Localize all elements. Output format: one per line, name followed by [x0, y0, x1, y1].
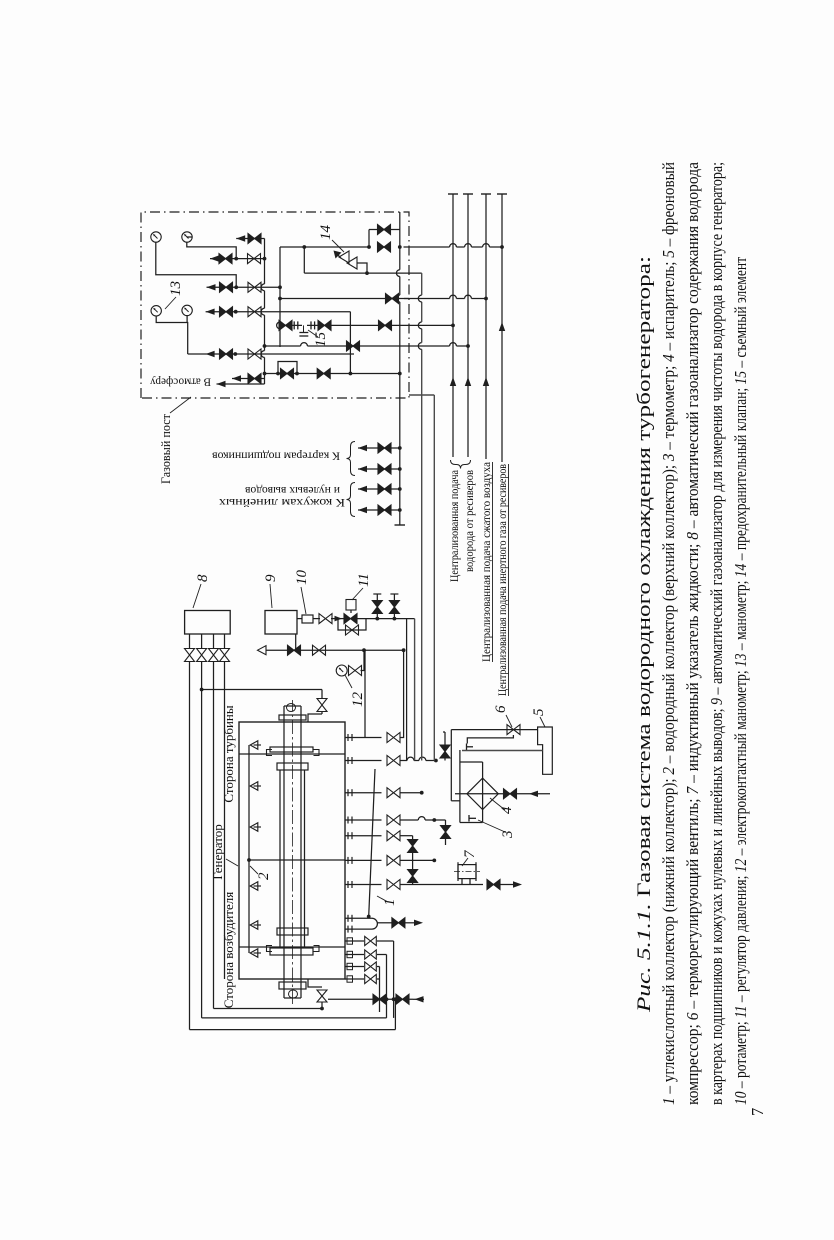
leader 7 [462, 858, 468, 866]
pipe: connector x=894 inside box [265, 345, 301, 347]
svg-text:14: 14 [318, 225, 334, 241]
shaft curl left [289, 990, 298, 998]
valve row4 open [248, 349, 261, 359]
bearing vent stub 3 [358, 468, 400, 470]
pipe: connector x=941.5 inside box [280, 298, 409, 300]
svg-text:2: 2 [256, 872, 272, 880]
left shaft seal drain [308, 979, 322, 987]
stub r7 tail [400, 884, 483, 886]
leader 2 [250, 866, 258, 874]
pipe: connector x=966.9 [304, 272, 421, 274]
manometer 13 a [151, 232, 161, 242]
valve under 12 [349, 666, 362, 676]
row 3 elbow [349, 312, 351, 374]
legs of 7 [461, 879, 463, 885]
valve 15b [318, 320, 331, 330]
link 993-966.9 [303, 247, 305, 273]
union coupling a [293, 321, 295, 329]
supply manifold line 2 (hydrogen) [467, 194, 469, 457]
exciter stub valve [365, 962, 377, 971]
union coupling b [310, 321, 312, 329]
exciter wall notch upper [267, 946, 273, 952]
row4 stub end [353, 353, 355, 355]
flow arrow to regulator [335, 616, 343, 622]
manometer 13 c [151, 306, 161, 316]
svg-text:7: 7 [462, 849, 478, 858]
leader for 14 [332, 240, 344, 252]
upper collector 2 pipe [248, 745, 250, 953]
svg-text:1 – углекислотный коллектор (н: 1 – углекислотный коллектор (нижний колл… [659, 162, 678, 1105]
pipe: item15 to manifold1 [399, 324, 401, 326]
pipe: row2 ext [266, 286, 280, 288]
collector tap triangle [250, 782, 258, 791]
centerline 7 [454, 871, 480, 873]
bypass loop around purge valve [278, 362, 297, 374]
bypass of 11 [338, 619, 366, 630]
svg-text:Газовый пост: Газовый пост [159, 413, 173, 484]
pipe: H2 connector to manifold line 4 [404, 246, 450, 248]
pipe: cross link y=280 [279, 329, 281, 347]
exciter stubs (4) [345, 978, 364, 980]
svg-text:компрессор; 6 – терморегулирую: компрессор; 6 – терморегулирующий вентил… [683, 162, 702, 1105]
valve on 412 line b [408, 870, 418, 883]
valve under 10 [319, 614, 332, 624]
evaporator diamond 4 [467, 778, 498, 809]
exciter stub valve [365, 936, 377, 945]
flow arrow on line 1 [450, 377, 456, 386]
row 0 pipe [236, 238, 264, 240]
stub r1 tail [400, 650, 404, 737]
right shaft seal drain [308, 714, 322, 722]
flow arrow on line 2 [465, 377, 471, 386]
vent valve open [313, 645, 326, 655]
pipe from analyzer 8 #4 [224, 634, 226, 649]
svg-text:В атмосферу: В атмосферу [150, 376, 211, 390]
svg-text:3: 3 [500, 831, 516, 840]
dryer left pipe [460, 822, 483, 824]
pipe 8-4 long [224, 662, 226, 980]
valve analyzer 1 [185, 649, 195, 662]
thermometer T2 [468, 815, 470, 822]
pipe wrap left 1 [190, 1029, 396, 1031]
gauge C/D links [156, 316, 188, 354]
pipe: vent collector to atmosphere [264, 357, 266, 384]
leader 13 [165, 297, 176, 309]
collector tap triangle [250, 949, 258, 958]
thermo valve 6 pipe [451, 729, 537, 731]
bearing vent stub 2 [358, 488, 400, 490]
svg-text:в картерах подшипников и кожух: в картерах подшипников и кожухах нулевых… [707, 162, 726, 1105]
purge valve b [317, 369, 330, 379]
valve row3 filled [220, 307, 233, 317]
leader 12 [345, 675, 352, 688]
branch b cap [390, 593, 398, 595]
liquid indicator 7 body [458, 865, 476, 879]
pipe from analyzer 8 #3 [213, 634, 215, 649]
pipe: connector to manifold line 3 [404, 298, 450, 300]
pipe from analyzer 8 #2 [201, 634, 203, 649]
gauge A link [156, 242, 236, 287]
leader 10 [301, 587, 306, 614]
dryer upper pipe [459, 750, 461, 823]
svg-text:8: 8 [195, 574, 211, 582]
stub r5 tail [400, 835, 413, 837]
gas analyzer 9 box [265, 611, 297, 635]
pipe T1 to compressor [462, 750, 543, 752]
machine stub r6 [345, 859, 382, 861]
bearing bar left inner [277, 928, 308, 935]
drain column exciter end [328, 998, 413, 1000]
drain flow arrow [415, 996, 424, 1002]
supply manifold line 1 (hydrogen) [452, 194, 454, 457]
manometer 13 d [182, 305, 192, 315]
removable element plates [303, 325, 305, 332]
svg-text:Генератор: Генератор [210, 824, 225, 879]
generator casing [239, 722, 345, 979]
valve row0 [248, 234, 261, 244]
pipe y=412.6 with valves [412, 836, 414, 885]
leader line for gas post label [170, 397, 191, 413]
supply manifold line 4 (inert gas) [501, 194, 503, 462]
deep purge pipe [265, 373, 400, 375]
svg-text:5: 5 [531, 708, 547, 716]
collector tap triangle [250, 741, 258, 750]
link 12 [361, 650, 365, 671]
valve row2 open [248, 282, 261, 292]
branch valve a [372, 601, 382, 614]
valve 15a [279, 320, 292, 330]
turbine wall notch lower [314, 750, 320, 756]
svg-text:и нулевых выводов: и нулевых выводов [245, 484, 340, 498]
machine stub r4 [345, 819, 382, 821]
exciter collector B [386, 955, 388, 1000]
pipe from analyzer 8 #1 [189, 634, 191, 649]
flow arrow on line 3 [483, 377, 489, 386]
leader 4 [490, 798, 505, 810]
exciter collector C [393, 941, 395, 1018]
link 9 to vent line [295, 634, 297, 650]
bypass rect line [364, 650, 366, 737]
valve on stub 3 [378, 464, 391, 474]
bearing vent stub 1 [358, 509, 400, 511]
routing pipe B (grey) [433, 395, 435, 761]
svg-text:6: 6 [493, 705, 509, 713]
stub r6 tail [400, 859, 434, 861]
svg-text:Централизованная подача сжатог: Централизованная подача сжатого воздуха [481, 462, 493, 662]
pipe dryer a [444, 732, 446, 761]
valve on bypass [378, 225, 391, 235]
stub r4 tail [400, 819, 418, 821]
pipe: atmosphere vent [217, 383, 265, 385]
valve analyzer 2 [197, 649, 207, 662]
supply manifold line 3 (compressed air) [485, 194, 487, 459]
svg-text:9: 9 [263, 574, 279, 582]
end tick of header [395, 524, 406, 526]
drain arrow below 7 [513, 881, 522, 887]
machine stub r5 [345, 835, 382, 837]
bearing vent stub 4 [358, 447, 400, 449]
valve analyzer 4 [220, 649, 230, 662]
manometer 13 b [182, 232, 192, 242]
rotameter 10 [302, 615, 313, 623]
pipe 10-valve [313, 618, 320, 620]
lower collector 1 (CO2) [369, 769, 375, 917]
stub valve r4 [387, 815, 400, 825]
pipe 8-3 long [213, 662, 215, 1009]
exciter wall notch lower [314, 946, 320, 952]
svg-text:7: 7 [748, 1108, 767, 1116]
valve row2 filled [220, 282, 233, 292]
exciter stub valve [365, 974, 377, 983]
leader 11 [352, 588, 363, 600]
leader 15 [308, 330, 318, 337]
rotor body [279, 770, 281, 948]
svg-text:15: 15 [313, 332, 329, 348]
shaft end left [284, 997, 301, 999]
brace stubs right pair [347, 442, 356, 476]
chain main pipe [297, 621, 302, 623]
drain valve b [396, 994, 409, 1004]
stub valve r7 [387, 880, 400, 890]
branch y=394 [393, 594, 395, 619]
thermometer T1 [466, 744, 468, 751]
shaft lower line [300, 706, 302, 998]
brace stubs left pair [347, 483, 356, 517]
exciter stub valve [365, 950, 377, 959]
purge valve a [281, 369, 294, 379]
bypass loop with valve [368, 230, 370, 248]
branch y=377 [376, 594, 378, 619]
leader 6 [506, 715, 512, 727]
shaft centerline [292, 700, 294, 1004]
pipe wrap left 3 [214, 1008, 323, 1010]
pilot box 11 [346, 600, 356, 611]
valve right end [317, 699, 327, 712]
routing pipe C [406, 619, 408, 761]
row 2 pipe [207, 286, 281, 288]
stub r2 tail [400, 760, 407, 762]
valve row4 filled [220, 349, 233, 359]
svg-text:Централизованная подача: Централизованная подача [449, 470, 461, 582]
bypass valve 11 [346, 625, 359, 635]
valve air feed [504, 789, 517, 799]
valve left end [317, 990, 327, 1002]
row 3 pipe [206, 311, 351, 313]
trap drain valve [392, 918, 405, 928]
valve below 7 [487, 880, 500, 890]
capillary 6-T1 [467, 735, 513, 744]
bearing bar left outer [270, 948, 313, 955]
leader generator [226, 859, 238, 866]
svg-text:12: 12 [350, 692, 366, 708]
machine stub r2 [345, 760, 382, 762]
removable element 15 pipe [280, 324, 302, 326]
pipe 8-2 long [201, 662, 203, 1018]
svg-text:Сторона турбины: Сторона турбины [221, 705, 236, 803]
stub r3 tail [400, 792, 422, 794]
stub valve r6 [387, 855, 400, 865]
chain pipe down [357, 618, 415, 620]
funnel triangle [258, 646, 267, 655]
branch valve b [389, 601, 399, 614]
valve on 412 line a [408, 840, 418, 853]
pipe valve-11 [331, 618, 344, 620]
shaft collar right [279, 715, 306, 720]
valve row3 open [248, 307, 261, 317]
collector tap triangle [250, 882, 258, 891]
machine stub r7 [345, 884, 382, 886]
gas post dash-dot border [141, 212, 409, 398]
stub valve r3 [387, 788, 400, 798]
svg-text:Сторона возбудителя: Сторона возбудителя [221, 892, 236, 1008]
collector tap triangle [250, 921, 258, 930]
branch a cap [373, 593, 381, 595]
pipe: connector to manifold line 2 [409, 345, 450, 347]
vent valve filled [288, 645, 301, 655]
svg-text:водорода от ресиверов: водорода от ресиверов [464, 469, 476, 572]
pipe 8-1 long [189, 662, 191, 1030]
freon compressor 5 box [538, 727, 553, 774]
pipe wrap left 2 [202, 1017, 387, 1019]
brace for hydrogen lines [451, 460, 471, 469]
valve on stub 4 [378, 443, 391, 453]
valve row1 open [248, 254, 261, 264]
U-trap bottom [372, 918, 377, 929]
leader 5 [540, 717, 545, 727]
valve dryer a [440, 745, 450, 758]
svg-text:10: 10 [294, 570, 310, 586]
bearing bar right inner [277, 763, 308, 770]
row 5 vent pipe [232, 378, 265, 380]
machine stub r1 [345, 737, 382, 739]
routing pipe A (grey) [421, 349, 423, 760]
pressure regulator 11 [344, 614, 357, 624]
valve on line1 connector [379, 320, 392, 330]
valve dryer b [441, 826, 451, 839]
leader 1 [377, 896, 388, 902]
gauge A-row3 link [235, 287, 237, 311]
machine stub r3 [345, 792, 382, 794]
pipe: bearing/casing feed header [399, 302, 401, 525]
pipe: connector to manifold line 1 [451, 324, 455, 328]
trap drain arrow [414, 920, 423, 926]
gauge B link [187, 236, 192, 238]
collector tap triangle [250, 823, 258, 832]
bearing bar right outer [270, 747, 313, 752]
svg-text:К картерам подшипников: К картерам подшипников [212, 450, 340, 464]
svg-text:10 – ротаметр; 11 – регулятор: 10 – ротаметр; 11 – регулятор давления; … [731, 257, 750, 1105]
electrocontact manometer 12 [336, 665, 347, 676]
valve analyzer 3 [209, 649, 219, 662]
stub valve r2 [387, 756, 400, 766]
valve on stub 1 [378, 505, 391, 515]
chain elbow [414, 619, 416, 761]
shaft upper line [283, 706, 285, 998]
svg-text:Централизованная подача инертн: Централизованная подача инертного газа о… [497, 464, 509, 696]
leader 9 [270, 584, 272, 608]
thermoregulating valve 6 [507, 725, 520, 735]
dryer right pipe [460, 761, 483, 763]
valve on air connector [386, 294, 399, 304]
row 4 pipe [188, 353, 354, 355]
drain valve a [373, 994, 386, 1004]
exciter collector A [379, 967, 381, 1013]
trap drain pipe [378, 922, 393, 924]
stub valve r5 [387, 831, 400, 841]
valve row1 filled [219, 254, 232, 264]
shaft curl right [287, 704, 296, 712]
valve on stub 2 [378, 484, 391, 494]
pipe from 14 [357, 263, 367, 273]
wrap elbows [394, 999, 396, 1029]
valve on line2 connector [347, 341, 360, 351]
gas analyzer 8 box [185, 611, 231, 635]
stub valve r1 [387, 733, 400, 743]
pipe dryer b [445, 820, 447, 845]
leader 8 [193, 584, 201, 608]
machine vent pipe with funnel [266, 649, 404, 651]
turbine wall notch upper [267, 750, 273, 756]
svg-text:Рис. 5.1.1. Газовая система во: Рис. 5.1.1. Газовая система водородного … [634, 256, 655, 1013]
valve on H2 inlet [378, 242, 391, 252]
svg-text:11: 11 [356, 573, 372, 587]
shaft end right [284, 705, 301, 707]
shaft collar left [279, 982, 306, 989]
safety valve 14 symbol [339, 251, 357, 269]
pipe: H2 inlet upper [280, 246, 369, 248]
flow arrow on line 4 [499, 322, 505, 331]
left end wrap join [320, 1007, 324, 1011]
end shield wall turbine side [239, 753, 345, 755]
U-trap legs [345, 928, 372, 930]
diamond horizontal pipe [482, 762, 484, 823]
svg-text:13: 13 [168, 281, 184, 296]
leader 3 [478, 820, 505, 832]
row 1 pipe [210, 258, 265, 260]
vertical pipe through casing [249, 859, 345, 861]
diamond vertical pipe [455, 793, 550, 795]
air flow arrow [529, 791, 538, 797]
end shield wall exciter side [239, 946, 345, 948]
